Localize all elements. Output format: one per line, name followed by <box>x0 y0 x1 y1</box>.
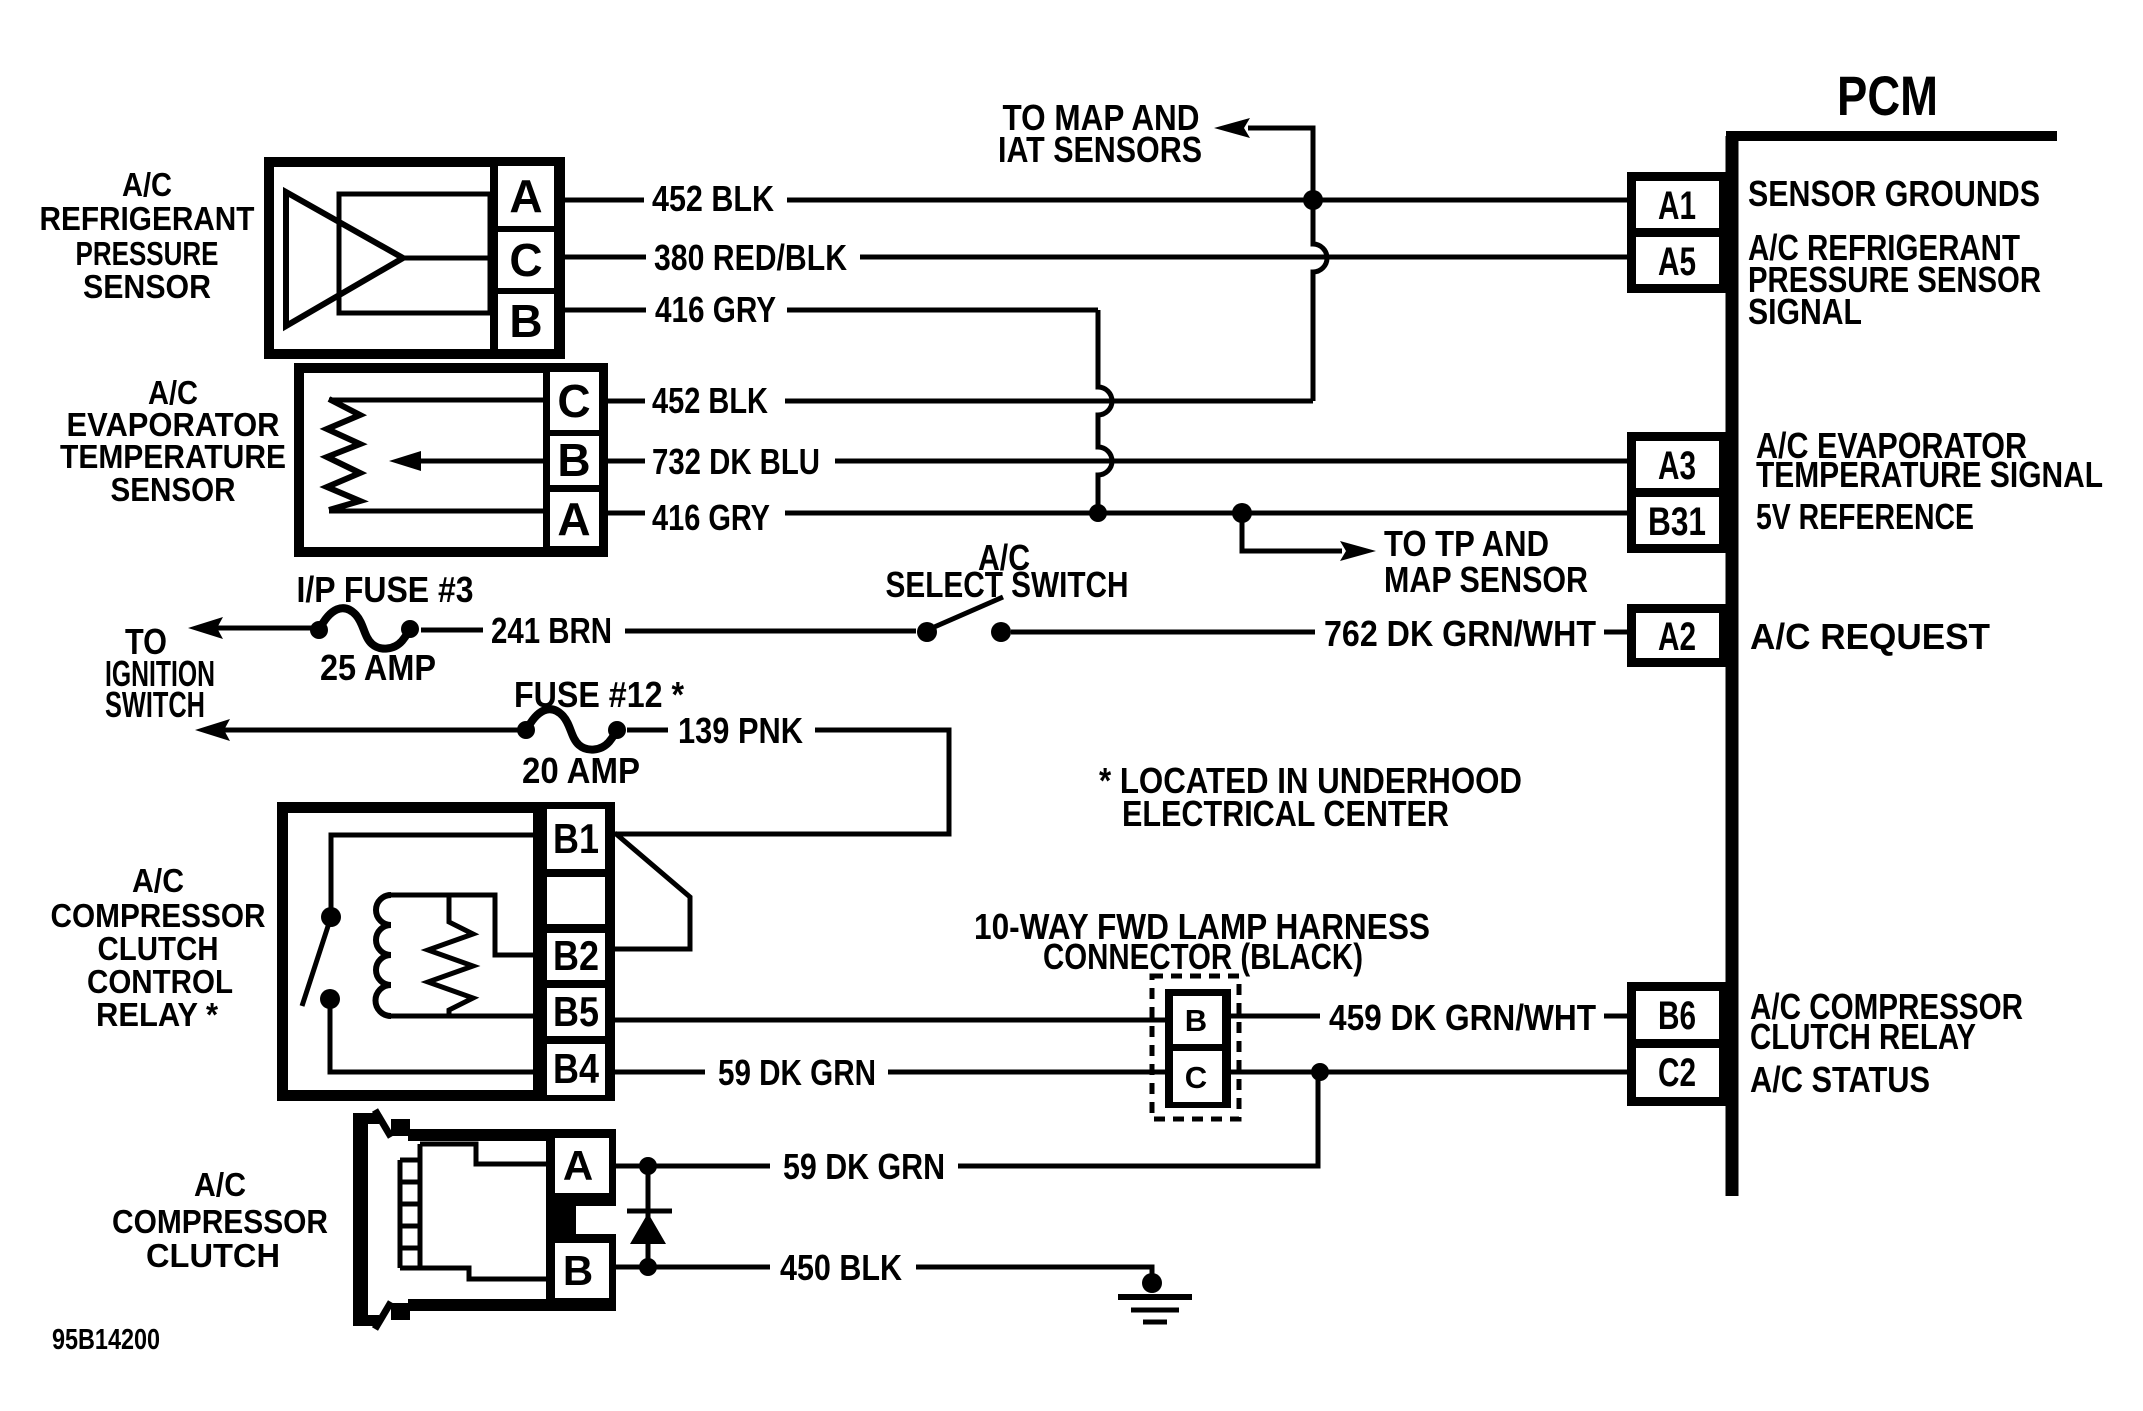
svg-text:REFRIGERANT: REFRIGERANT <box>40 200 255 237</box>
evaporator sensor wiper arrow from pin B <box>389 451 547 471</box>
svg-text:5V REFERENCE: 5V REFERENCE <box>1756 496 1974 537</box>
svg-text:B2: B2 <box>553 932 599 979</box>
svg-text:20 AMP: 20 AMP <box>522 750 640 791</box>
svg-text:SELECT SWITCH: SELECT SWITCH <box>886 564 1129 605</box>
svg-text:I/P FUSE #3: I/P FUSE #3 <box>297 569 474 610</box>
A/C compressor clutch control relay body <box>277 802 615 1101</box>
svg-text:B6: B6 <box>1658 994 1696 1038</box>
svg-text:C: C <box>1185 1060 1207 1095</box>
svg-text:PRESSURE: PRESSURE <box>76 235 219 272</box>
clutch pin A box <box>548 1129 616 1206</box>
svg-text:CLUTCH: CLUTCH <box>98 930 219 967</box>
svg-text:452 BLK: 452 BLK <box>652 178 774 219</box>
wire 241 BRN from fuse 3 to select switch <box>421 630 916 631</box>
wire 459 DK GRN/WHT from 10-way pin B to PCM B6 <box>1231 1014 1627 1019</box>
relay coil <box>375 895 545 1016</box>
svg-text:A/C: A/C <box>122 166 172 203</box>
svg-text:SWITCH: SWITCH <box>105 684 205 725</box>
wire 59 DK GRN from 10-way pin C to PCM C2 <box>1231 1070 1627 1075</box>
wire vertical 452 BLK to map/iat sensors with hop <box>1248 128 1327 401</box>
pressure sensor output line to pin C <box>403 256 498 261</box>
ground symbol <box>1118 1273 1192 1322</box>
svg-text:CLUTCH RELAY: CLUTCH RELAY <box>1750 1016 1976 1057</box>
A/C evaporator temperature sensor body <box>294 363 608 557</box>
svg-text:ELECTRICAL CENTER: ELECTRICAL CENTER <box>1122 793 1449 834</box>
connector A1/A5 block <box>1627 172 1728 293</box>
svg-text:A: A <box>509 170 542 222</box>
A/C refrigerant pressure sensor label <box>40 166 255 305</box>
connector A3/B31 block <box>1627 432 1728 553</box>
svg-text:C2: C2 <box>1658 1051 1696 1095</box>
relay switch contacts <box>302 907 341 1009</box>
fuse FUSE 12 <box>517 709 626 749</box>
svg-text:B: B <box>1185 1003 1207 1038</box>
connector A2 block <box>1627 604 1728 667</box>
wire 380 RED/BLK from pressure sensor pin C to PCM A5 <box>565 255 1627 260</box>
wire to ignition switch from fuse 3 <box>217 626 318 631</box>
wire from relay B5 to 10-way connector pin B <box>615 1018 1166 1023</box>
A/C select switch label <box>886 537 1129 605</box>
A/C compressor clutch connector body <box>408 1129 576 1311</box>
svg-text:A/C: A/C <box>132 862 184 899</box>
wire 139 PNK from fuse 12 to relay B1 <box>615 730 949 834</box>
wire tap to TP and MAP sensor <box>1242 513 1342 551</box>
svg-text:A2: A2 <box>1658 615 1696 659</box>
svg-text:A5: A5 <box>1658 240 1696 284</box>
10-way connector label <box>974 906 1430 977</box>
evaporator sensor bottom line to pin A <box>329 509 547 514</box>
relay jumper B1 to B2 <box>615 833 690 949</box>
svg-text:SENSOR GROUNDS: SENSOR GROUNDS <box>1748 173 2040 214</box>
label TO IGNITION SWITCH <box>105 621 215 725</box>
svg-text:TEMPERATURE SIGNAL: TEMPERATURE SIGNAL <box>1756 454 2103 495</box>
wire 416 GRY from pressure sensor pin B <box>565 308 1098 313</box>
junction on 452 BLK sensor ground wire <box>1303 190 1323 210</box>
svg-text:FUSE #12 *: FUSE #12 * <box>514 674 684 715</box>
svg-text:59 DK GRN: 59 DK GRN <box>718 1052 876 1093</box>
svg-text:C: C <box>557 375 590 427</box>
wire 59 DK GRN from relay B4 to 10-way connector pin C <box>615 1070 1166 1075</box>
wire 416 GRY from evaporator sensor pin A to PCM B31 <box>608 511 1627 516</box>
svg-text:A/C: A/C <box>194 1166 246 1203</box>
arrowhead to TP and MAP sensor <box>1340 541 1376 561</box>
svg-text:732 DK BLU: 732 DK BLU <box>652 441 820 482</box>
A/C compressor clutch label <box>112 1166 328 1274</box>
label TO TP AND MAP SENSOR <box>1384 523 1588 600</box>
10-way connector pin block <box>1165 989 1231 1108</box>
junction clutch pin B to diode <box>639 1258 657 1276</box>
PCM port label A/C COMPRESSOR CLUTCH RELAY <box>1750 986 2023 1057</box>
label TO MAP AND IAT SENSORS <box>998 97 1202 170</box>
wire 452 BLK from pressure sensor pin A to PCM A1 <box>565 198 1627 203</box>
relay switch wire to B4 <box>330 999 545 1072</box>
svg-text:SENSOR: SENSOR <box>83 268 211 305</box>
junction to TP and MAP sensor tap <box>1232 503 1252 523</box>
arrowhead to ignition switch row2 <box>195 719 230 741</box>
wire 762 DK GRN/WHT from select switch to PCM A2 <box>1011 630 1627 635</box>
svg-text:241 BRN: 241 BRN <box>491 610 612 651</box>
note located in underhood electrical center <box>1099 760 1522 834</box>
svg-text:COMPRESSOR: COMPRESSOR <box>112 1203 328 1240</box>
svg-text:TO TP AND: TO TP AND <box>1384 523 1549 564</box>
svg-text:A/C REQUEST: A/C REQUEST <box>1750 616 1990 657</box>
svg-text:416 GRY: 416 GRY <box>655 289 776 330</box>
svg-text:SIGNAL: SIGNAL <box>1748 291 1862 332</box>
svg-text:B4: B4 <box>553 1045 600 1092</box>
A/C compressor clutch housing bracket <box>353 1110 410 1329</box>
svg-text:MAP SENSOR: MAP SENSOR <box>1384 559 1588 600</box>
svg-text:COMPRESSOR: COMPRESSOR <box>51 897 266 934</box>
svg-text:PCM: PCM <box>1837 64 1938 127</box>
svg-text:139 PNK: 139 PNK <box>678 710 803 751</box>
svg-text:CLUTCH: CLUTCH <box>146 1237 280 1274</box>
svg-text:59 DK GRN: 59 DK GRN <box>783 1146 945 1187</box>
svg-text:C: C <box>509 234 542 286</box>
evaporator sensor thermistor zigzag <box>327 399 360 510</box>
A/C evaporator temperature sensor label <box>60 374 286 508</box>
svg-text:B: B <box>563 1247 593 1294</box>
svg-text:A: A <box>563 1142 593 1189</box>
10-way fwd lamp harness connector dashed outline <box>1152 976 1239 1119</box>
junction of A/C status wire and clutch feed <box>1311 1063 1329 1081</box>
A/C select switch <box>917 597 1011 642</box>
svg-text:B1: B1 <box>553 815 599 862</box>
PCM port label A/C REFRIGERANT PRESSURE SENSOR SIGNAL <box>1748 227 2041 332</box>
svg-text:416 GRY: 416 GRY <box>652 497 770 538</box>
svg-text:95B14200: 95B14200 <box>52 1324 160 1356</box>
junction clutch pin A to diode <box>639 1157 657 1175</box>
clutch suppression diode <box>627 1166 672 1267</box>
svg-text:A1: A1 <box>1658 184 1696 228</box>
pressure sensor transducer triangle <box>286 192 403 326</box>
svg-text:B: B <box>557 434 590 486</box>
svg-text:A: A <box>557 493 590 545</box>
svg-text:380 RED/BLK: 380 RED/BLK <box>654 237 847 278</box>
svg-text:459 DK GRN/WHT: 459 DK GRN/WHT <box>1329 997 1596 1038</box>
wire 452 BLK from evaporator sensor pin C <box>608 399 1313 404</box>
svg-text:A3: A3 <box>1658 444 1696 488</box>
svg-text:CONNECTOR (BLACK): CONNECTOR (BLACK) <box>1043 936 1363 977</box>
A/C refrigerant pressure sensor body <box>264 157 565 359</box>
wire 450 BLK from clutch pin B to ground <box>616 1267 1152 1283</box>
wire 732 DK BLU from evaporator sensor pin B to PCM A3 <box>608 459 1627 464</box>
wire 416 GRY vertical with hops down to 5V reference wire <box>1098 310 1112 513</box>
wire 59 DK GRN from clutch pin A to A/C status junction <box>616 1072 1318 1166</box>
PCM module boundary line <box>1726 136 2057 1196</box>
svg-text:450 BLK: 450 BLK <box>780 1247 902 1288</box>
connector B6/C2 block <box>1627 982 1728 1106</box>
evaporator sensor top line to pin C <box>329 398 547 403</box>
relay switch wire to B1 <box>331 835 545 917</box>
clutch pin B box <box>548 1234 616 1311</box>
arrowhead to MAP and IAT sensors <box>1214 118 1250 138</box>
svg-text:TEMPERATURE: TEMPERATURE <box>60 438 286 475</box>
svg-text:CONTROL: CONTROL <box>87 963 233 1000</box>
PCM port label A/C EVAPORATOR TEMPERATURE SIGNAL <box>1756 425 2103 495</box>
svg-text:452 BLK: 452 BLK <box>652 380 768 421</box>
svg-text:RELAY *: RELAY * <box>96 996 218 1033</box>
junction of 416 GRY wires <box>1089 504 1107 522</box>
fuse I/P FUSE 3 <box>310 608 419 648</box>
svg-text:SENSOR: SENSOR <box>111 471 236 508</box>
wire to ignition switch from fuse 12 <box>224 728 526 733</box>
svg-text:B31: B31 <box>1648 500 1706 544</box>
A/C compressor clutch control relay label <box>51 862 266 1033</box>
svg-text:B: B <box>509 295 542 347</box>
clutch connector terminal profile <box>400 1144 546 1279</box>
svg-text:762 DK GRN/WHT: 762 DK GRN/WHT <box>1324 613 1596 654</box>
svg-text:B5: B5 <box>553 988 599 1035</box>
svg-text:25 AMP: 25 AMP <box>320 647 436 688</box>
pressure sensor element rectangle <box>339 194 490 313</box>
svg-text:A/C STATUS: A/C STATUS <box>1750 1059 1930 1100</box>
svg-text:IAT SENSORS: IAT SENSORS <box>998 129 1202 170</box>
arrowhead to ignition switch row1 <box>188 617 223 639</box>
